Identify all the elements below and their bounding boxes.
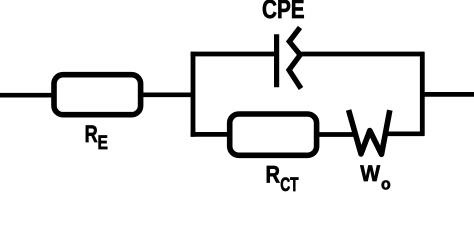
svg-text:R: R: [266, 161, 281, 188]
svg-text:o: o: [381, 175, 391, 192]
svg-text:E: E: [98, 131, 109, 153]
svg-text:W: W: [360, 160, 380, 186]
svg-text:CT: CT: [280, 174, 299, 192]
svg-text:CPE: CPE: [262, 0, 305, 24]
svg-text:R: R: [85, 121, 98, 148]
